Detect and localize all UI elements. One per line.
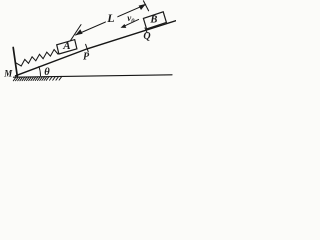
- dimension line L: [76, 5, 146, 35]
- svg-text:P: P: [83, 52, 90, 63]
- incline surface: [16, 21, 177, 76]
- svg-text:M: M: [3, 68, 13, 78]
- tick P: [86, 44, 89, 52]
- arrowhead of v0: [121, 24, 127, 28]
- tick Q: [145, 28, 148, 34]
- svg-text:L: L: [106, 11, 114, 25]
- ground hatching: [13, 76, 62, 80]
- arrowhead right of L line: [139, 4, 146, 10]
- ground line: [14, 75, 173, 77]
- wall: [13, 48, 17, 77]
- arrowhead left of L line: [75, 29, 82, 35]
- block A: [57, 40, 77, 54]
- svg-text:A: A: [62, 40, 70, 52]
- velocity arrow v0: [123, 19, 139, 27]
- angle arc: [39, 67, 41, 76]
- spring: [16, 49, 61, 66]
- svg-text:Q: Q: [143, 31, 150, 42]
- extension tick at A: [69, 25, 81, 43]
- label L halo: [106, 12, 118, 23]
- block B: [143, 12, 166, 29]
- svg-text:B: B: [149, 14, 157, 25]
- extension tick at B: [143, 1, 148, 11]
- svg-text:θ: θ: [44, 67, 50, 78]
